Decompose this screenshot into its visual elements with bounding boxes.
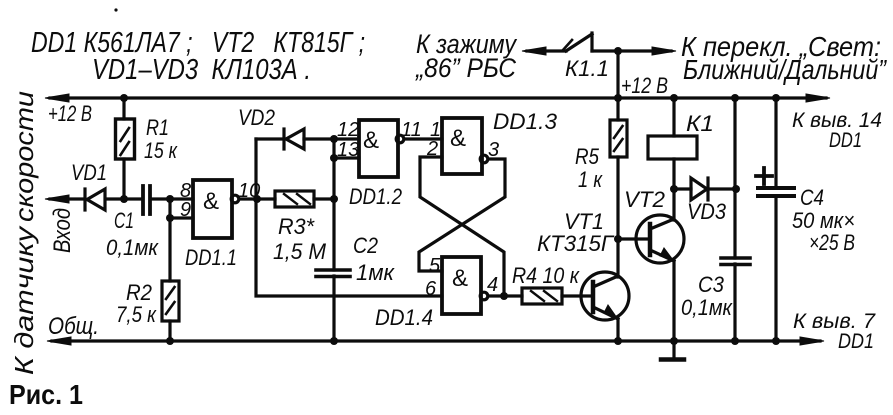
svg-text:DD1.1: DD1.1 — [185, 245, 237, 270]
label pin 6 — [425, 278, 437, 300]
svg-text:К датчику: К датчику — [9, 225, 39, 375]
wire: VT2 emitter — [672, 261, 675, 341]
label: К зажиму „86" РБС — [415, 29, 517, 83]
node: VT2 base tap — [614, 235, 622, 243]
svg-text:+12 В: +12 В — [48, 101, 92, 126]
label DD1.4 — [375, 305, 433, 330]
label: Общ. — [48, 313, 99, 340]
label VD2 — [238, 105, 275, 130]
svg-text:R4 10 к: R4 10 к — [512, 263, 580, 288]
svg-text:7,5 к: 7,5 к — [116, 302, 157, 327]
resistor R2 — [162, 218, 179, 341]
svg-text:R5: R5 — [575, 144, 600, 169]
label VD1 — [71, 160, 107, 185]
label K1 — [686, 111, 714, 136]
label C4 value — [792, 185, 855, 255]
op-gate DD1.4 — [442, 257, 504, 314]
svg-text:VD1–VD3 КЛ103А .: VD1–VD3 КЛ103А . — [92, 54, 311, 86]
node: pin9/R2 junction — [166, 214, 174, 222]
node: C3 branch / top rail — [731, 94, 739, 102]
svg-text:VD2: VD2 — [238, 105, 275, 130]
svg-text:DD1.2: DD1.2 — [349, 184, 402, 209]
svg-text:&: & — [363, 127, 379, 154]
wire: pins 12/13 vertical — [332, 139, 335, 270]
capacitor C2 — [316, 270, 350, 341]
svg-text:Рис. 1: Рис. 1 — [9, 379, 83, 410]
svg-text:VT2: VT2 — [624, 187, 665, 212]
wire: pin9 drop — [170, 199, 193, 218]
svg-text:Ближний/Дальний”: Ближний/Дальний” — [683, 54, 887, 85]
label: +12 В middle — [621, 73, 668, 98]
label pin 9 — [180, 199, 191, 221]
svg-text:C4: C4 — [800, 185, 824, 210]
node: K1.1 junction — [614, 47, 622, 55]
label DD1.3 — [493, 109, 558, 134]
label pin 10 — [238, 180, 260, 202]
svg-text:скорости: скорости — [9, 91, 39, 222]
label pin 2 — [426, 138, 438, 160]
label C1 value — [106, 208, 159, 260]
node: K1 coil / top rail — [670, 94, 678, 102]
wire: DD1.3 out to DD1.4 pin5 (cross) — [419, 159, 505, 271]
svg-text:6: 6 — [425, 278, 437, 300]
node: VD1/R1/C1 junction — [120, 195, 128, 203]
svg-text:×25 В: ×25 В — [809, 230, 855, 255]
resistor R1 — [116, 98, 135, 199]
svg-text:КТ315Г: КТ315Г — [537, 231, 615, 256]
diode VD3 — [674, 178, 736, 200]
node: C4 branch / top rail — [772, 94, 780, 102]
svg-text:&: & — [450, 125, 466, 152]
svg-text:C3: C3 — [698, 272, 725, 297]
diode VD1 — [85, 189, 105, 210]
transistor VT2 — [636, 215, 684, 263]
capacitor C3 — [721, 98, 750, 341]
node: VT1 emitter / bottom rail — [614, 337, 622, 345]
svg-text:&: & — [203, 188, 219, 215]
label pin 4 — [487, 274, 498, 296]
label pin 3 — [488, 139, 499, 161]
label pin 12 — [337, 119, 359, 141]
node: R3 right junction — [330, 195, 338, 203]
op-gate DD1.2 — [359, 120, 442, 177]
svg-text:DD1.3: DD1.3 — [493, 109, 558, 134]
svg-text:VD1: VD1 — [71, 160, 107, 185]
label: К выв. 7 DD1 — [793, 310, 876, 353]
node: K1.1 drop / top rail — [614, 94, 622, 102]
node: C4 / bottom rail — [772, 337, 780, 345]
label VT1 КТ315Г — [537, 209, 615, 256]
relay contact K1.1 — [522, 33, 676, 98]
node: pin4 junction — [500, 292, 508, 300]
speck — [114, 8, 117, 11]
svg-text:12: 12 — [337, 119, 359, 141]
wire: pin 12 — [334, 137, 359, 140]
wire: VT1 emitter down — [616, 319, 619, 341]
label pin 8 — [180, 180, 191, 202]
label DD1.2 — [349, 184, 402, 209]
label: К перекл. „Свет: — [681, 31, 887, 85]
wire: DD1.4 out to DD1.3 pin2 (cross) — [420, 157, 504, 296]
wire: VT2 collector — [672, 159, 675, 220]
label: +12 В left — [48, 101, 92, 126]
svg-text:&: & — [452, 265, 468, 292]
wire: input rail (Вход) — [45, 195, 193, 203]
svg-text:Общ.: Общ. — [48, 313, 99, 340]
svg-text:R1: R1 — [146, 115, 169, 140]
svg-text:R3*: R3* — [278, 214, 315, 239]
node: pin12 junction — [330, 135, 338, 143]
svg-text:DD1: DD1 — [838, 330, 874, 353]
label K1.1 — [565, 56, 609, 81]
node: C3 / bottom rail — [731, 337, 739, 345]
node: R2 / bottom rail — [166, 337, 174, 345]
op-gate DD1.3 — [442, 118, 488, 174]
resistor R4 — [504, 288, 593, 304]
svg-text:Вход: Вход — [49, 208, 76, 253]
label: К датчику (rotated) — [9, 225, 39, 375]
svg-text:DD1: DD1 — [829, 129, 862, 152]
label: parts list line 1 — [31, 27, 365, 59]
svg-text:C2: C2 — [353, 233, 378, 258]
wire: pin 13 — [334, 156, 359, 159]
wire: VT2 base — [618, 237, 650, 240]
resistor R5 — [610, 98, 627, 157]
svg-text:C1: C1 — [114, 208, 134, 233]
label: К выв. 14 DD1 — [792, 109, 882, 152]
label VT2 — [624, 187, 665, 212]
svg-text:+12 В: +12 В — [621, 73, 668, 98]
svg-text:4: 4 — [487, 274, 498, 296]
capacitor C4 (polarized) — [756, 98, 794, 341]
wire: feedback loop pin10 to pin6 — [256, 139, 442, 296]
svg-text:К1: К1 — [686, 111, 714, 136]
node: VD3 cathode — [732, 185, 740, 193]
wire: bottom common rail — [47, 337, 824, 345]
capacitor C1 — [143, 186, 150, 214]
label: parts list line 2 — [92, 54, 311, 86]
svg-text:1 к: 1 к — [578, 167, 603, 192]
svg-text:1мк: 1мк — [356, 260, 396, 285]
label pin 5 — [429, 255, 441, 277]
label pin 1 — [430, 119, 441, 141]
svg-text:9: 9 — [180, 199, 191, 221]
wire: top +12V rail — [45, 94, 830, 102]
node: pin10 junction — [253, 195, 261, 203]
node: R1 / top rail — [120, 94, 128, 102]
label R4 10 к — [512, 263, 580, 288]
transistor VT1 — [581, 272, 629, 320]
label DD1.1 — [185, 245, 237, 270]
svg-text:0,1мк: 0,1мк — [106, 235, 159, 260]
node: C2 / bottom rail — [330, 337, 338, 345]
op-gate DD1.1 — [193, 180, 257, 238]
label: Вход (rotated) — [49, 208, 76, 253]
svg-text:VD3: VD3 — [687, 199, 727, 224]
node: pin13 junction — [330, 154, 338, 162]
svg-text:DD1.4: DD1.4 — [375, 305, 433, 330]
label: скорости (rotated) — [9, 91, 39, 222]
svg-text:0,1мк: 0,1мк — [681, 295, 733, 320]
node: VT2 emitter / bottom rail — [670, 337, 678, 345]
label: Рис. 1 — [9, 379, 83, 410]
svg-text:1,5 М: 1,5 М — [273, 239, 327, 264]
label R1 15 к — [144, 115, 178, 163]
label R3* 1,5 М — [273, 214, 327, 264]
svg-text:К1.1: К1.1 — [565, 56, 609, 81]
label C2 1мк — [353, 233, 396, 285]
svg-text:15 к: 15 к — [144, 138, 178, 163]
label C3 value — [681, 272, 733, 320]
wire: VT1 collector to R5 — [616, 157, 619, 277]
label VD3 — [687, 199, 727, 224]
resistor R3 — [257, 191, 334, 207]
label R5 1 к — [575, 144, 603, 192]
label pin 13 — [337, 139, 359, 161]
svg-text:5: 5 — [429, 255, 441, 277]
svg-text:13: 13 — [337, 139, 359, 161]
diode VD2 — [256, 129, 334, 149]
svg-text:11: 11 — [401, 119, 422, 141]
label R2 7,5 к — [116, 280, 157, 327]
node: C1/pin8 junction — [166, 195, 174, 203]
relay coil K1 — [648, 98, 697, 159]
node: VD3 anode — [670, 185, 678, 193]
ground — [661, 341, 684, 360]
svg-text:„86” РБС: „86” РБС — [415, 53, 516, 83]
label pin 11 — [401, 119, 422, 141]
